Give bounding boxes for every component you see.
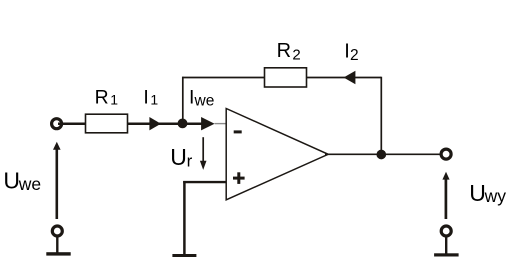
svg-text:U: U	[469, 180, 486, 206]
op-amp U1 triangle	[226, 109, 328, 200]
wire: feedback top horizontal to R2	[182, 77, 264, 79]
svg-text:I: I	[344, 41, 350, 63]
wire: R1 to node	[128, 122, 183, 125]
svg-text:we: we	[194, 93, 215, 110]
op-amp plus mark	[233, 177, 245, 180]
terminal: input (left top)	[52, 119, 62, 129]
resistor R1	[86, 114, 128, 133]
wire: R2 to corner	[307, 77, 382, 79]
wire: feedback right riser down to output node	[380, 77, 382, 155]
svg-text:r: r	[187, 152, 193, 171]
svg-text:U: U	[3, 168, 20, 194]
terminal: right bottom	[441, 226, 451, 236]
ground middle: bar	[172, 254, 196, 257]
svg-text:1: 1	[110, 92, 118, 108]
ground left: bar	[46, 252, 70, 255]
wire: feedback riser from node up	[182, 77, 184, 124]
current arrow Iwe	[201, 117, 215, 130]
wire: op-amp output to output terminal	[325, 153, 446, 155]
resistor R2	[265, 68, 307, 87]
svg-text:we: we	[18, 174, 41, 194]
svg-text:R: R	[277, 40, 291, 62]
ground right: stem	[445, 238, 447, 254]
wire (gray): arrow tip to op-amp inverting input	[215, 123, 227, 125]
ground left: stem	[56, 238, 58, 253]
wire: input terminal to R1	[58, 122, 86, 125]
svg-text:U: U	[170, 144, 187, 170]
svg-text:2: 2	[292, 46, 300, 63]
voltage arrow Uwe (points up)	[55, 149, 58, 220]
current arrow I2 (points left)	[344, 71, 356, 84]
svg-text:2: 2	[350, 47, 359, 64]
current arrow I1	[149, 117, 161, 130]
svg-text:1: 1	[150, 92, 158, 108]
voltage arrow Uwy (points up)	[445, 179, 448, 220]
terminal: left bottom	[52, 226, 62, 236]
wire: non-inverting ground riser	[183, 181, 186, 255]
terminal: output (right top)	[441, 149, 451, 159]
node: output junction	[376, 150, 386, 160]
svg-text:R: R	[95, 86, 109, 108]
wire: non-inverting input horizontal	[183, 181, 226, 183]
op-amp minus mark	[234, 130, 242, 133]
svg-text:wy: wy	[484, 186, 507, 206]
svg-text:I: I	[143, 86, 148, 108]
ground right: bar	[434, 253, 459, 256]
voltage arrow Ur (points down)	[202, 137, 204, 162]
wire: node to Iwe arrow	[183, 122, 204, 125]
node: inverting input junction	[178, 119, 188, 129]
